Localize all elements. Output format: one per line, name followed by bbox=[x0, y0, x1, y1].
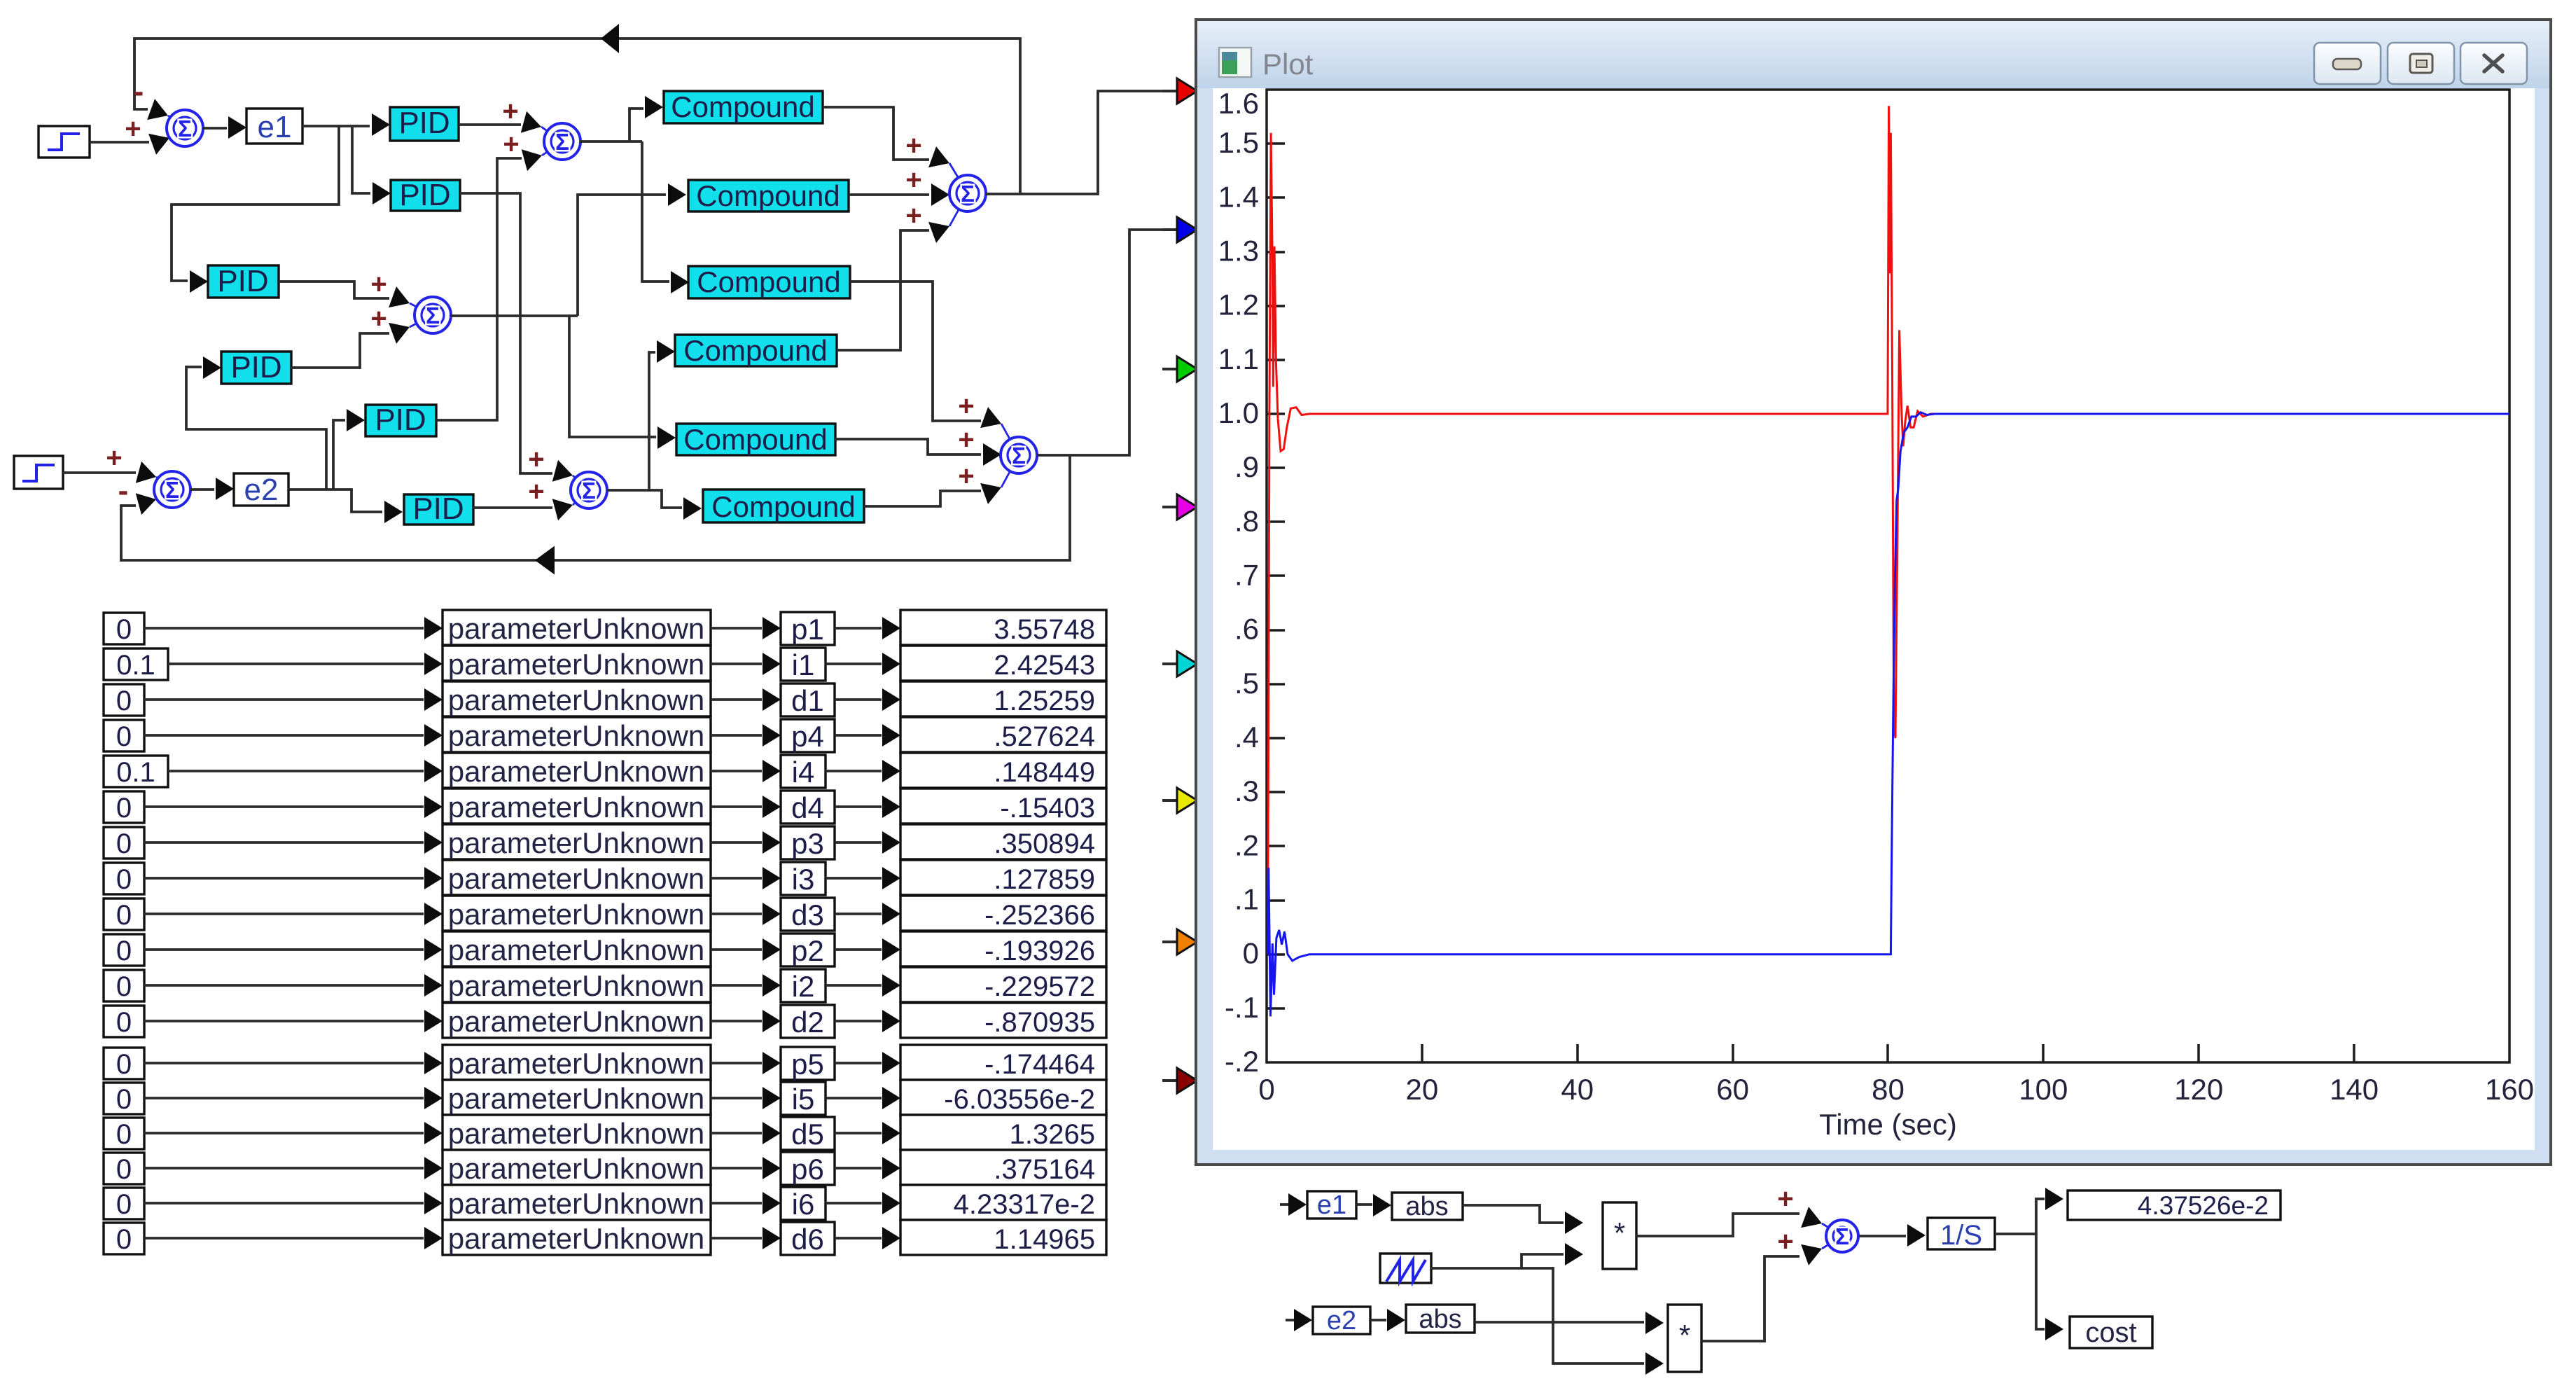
svg-text:parameterUnknown: parameterUnknown bbox=[448, 1082, 705, 1115]
svg-text:PID: PID bbox=[399, 178, 450, 212]
svg-text:d6: d6 bbox=[791, 1223, 824, 1256]
svg-text:1.0: 1.0 bbox=[1218, 396, 1259, 429]
parameter row p4 : input constant 0 -> parameterUnknown -> p4 -> value .527624 bbox=[104, 720, 144, 751]
svg-text:Σ: Σ bbox=[426, 303, 440, 328]
svg-text:.9: .9 bbox=[1234, 450, 1259, 483]
green plot input arrow bbox=[1162, 356, 1197, 382]
parameter row d6 : input constant 0 -> parameterUnknown -> d6 -> value 1.14965 bbox=[104, 1223, 144, 1254]
svg-text:PID: PID bbox=[230, 350, 281, 384]
sum junction S4 bbox=[156, 477, 172, 499]
svg-text:-: - bbox=[118, 473, 129, 508]
svg-text:80: 80 bbox=[1872, 1073, 1905, 1106]
svg-text:Compound: Compound bbox=[683, 423, 827, 456]
svg-text:+: + bbox=[1777, 1226, 1793, 1257]
svg-text:+: + bbox=[370, 269, 387, 300]
svg-text:-.229572: -.229572 bbox=[984, 971, 1095, 1002]
PID block PID5 bbox=[365, 405, 436, 436]
svg-text:100: 100 bbox=[2019, 1073, 2068, 1106]
wire step1 to sum junction S1 bbox=[90, 141, 149, 144]
svg-text:0: 0 bbox=[116, 721, 132, 752]
x axis tick marks and labels bbox=[1422, 1044, 2354, 1062]
svg-text:3.55748: 3.55748 bbox=[994, 614, 1095, 645]
svg-text:-.2: -.2 bbox=[1225, 1045, 1259, 1078]
maximize button bbox=[2388, 43, 2454, 84]
svg-text:+: + bbox=[528, 444, 544, 475]
parameter row p6 : input constant 0 -> parameterUnknown -> p6 -> value .375164 bbox=[104, 1153, 144, 1184]
svg-text:0.1: 0.1 bbox=[116, 757, 155, 788]
blue response curve bbox=[1268, 412, 2509, 1017]
svg-text:parameterUnknown: parameterUnknown bbox=[448, 862, 705, 895]
svg-text:2.42543: 2.42543 bbox=[994, 650, 1095, 681]
svg-text:1.2: 1.2 bbox=[1218, 289, 1259, 321]
svg-text:Σ: Σ bbox=[555, 129, 569, 155]
svg-text:0: 0 bbox=[116, 1154, 132, 1185]
multiplier block M1 bbox=[1603, 1202, 1636, 1269]
sum junction S1 bbox=[168, 116, 185, 138]
wire e1 to abs1 bbox=[1356, 1203, 1372, 1206]
svg-text:Σ: Σ bbox=[1835, 1223, 1849, 1249]
wire sawtooth to M1 and M2 bbox=[1431, 1254, 1564, 1268]
svg-text:0: 0 bbox=[1243, 937, 1259, 970]
svg-text:-.15403: -.15403 bbox=[1000, 793, 1095, 824]
sawtooth source block bbox=[1380, 1254, 1431, 1283]
parameter row p1 : input constant 0 -> parameterUnknown -> p1 -> value 3.55748 bbox=[104, 613, 144, 644]
Compound block C3 bbox=[688, 266, 850, 298]
wire Compound4 output up to sum SA third plus input bbox=[837, 230, 929, 350]
svg-text:+: + bbox=[370, 303, 387, 334]
svg-text:.127859: .127859 bbox=[994, 864, 1095, 895]
svg-text:parameterUnknown: parameterUnknown bbox=[448, 1222, 705, 1255]
Compound block C4 bbox=[675, 335, 837, 366]
svg-text:20: 20 bbox=[1406, 1073, 1439, 1106]
svg-text:parameterUnknown: parameterUnknown bbox=[448, 719, 705, 752]
svg-text:.4: .4 bbox=[1234, 721, 1259, 754]
minimize button bbox=[2314, 43, 2381, 84]
y axis tick marks and labels bbox=[1267, 144, 1285, 1008]
svg-text:+: + bbox=[528, 476, 544, 507]
svg-text:40: 40 bbox=[1561, 1073, 1594, 1106]
svg-text:-.252366: -.252366 bbox=[984, 900, 1095, 931]
svg-text:Σ: Σ bbox=[582, 478, 596, 504]
wire S6 to integrator 1/S bbox=[1859, 1235, 1906, 1237]
svg-text:.375164: .375164 bbox=[994, 1154, 1095, 1185]
svg-text:0: 0 bbox=[116, 1189, 132, 1220]
parameter row d5 : input constant 0 -> parameterUnknown -> d5 -> value 1.3265 bbox=[104, 1118, 144, 1149]
wire S3 output to Compound2 and Compound5 bbox=[450, 314, 578, 317]
svg-text:+: + bbox=[1777, 1184, 1793, 1214]
svg-text:Compound: Compound bbox=[711, 490, 855, 523]
svg-text:e1: e1 bbox=[1317, 1191, 1346, 1220]
svg-text:Compound: Compound bbox=[697, 265, 840, 298]
svg-text:0: 0 bbox=[116, 936, 132, 966]
value display 4.37526e-2 bbox=[2068, 1191, 2281, 1220]
svg-text:+: + bbox=[958, 391, 974, 422]
svg-text:i6: i6 bbox=[792, 1188, 815, 1221]
wire abs2 to M2 bbox=[1475, 1321, 1644, 1324]
svg-text:Σ: Σ bbox=[961, 181, 975, 207]
wire e1 output branching to PID1, PID2, PID3 bbox=[302, 125, 370, 127]
svg-text:parameterUnknown: parameterUnknown bbox=[448, 612, 705, 645]
wire S4 to e2 bbox=[190, 488, 214, 491]
svg-text:PID: PID bbox=[412, 492, 464, 526]
wire Compound1 output to sum SA plus input bbox=[823, 107, 929, 160]
Compound block C5 bbox=[676, 424, 835, 455]
svg-text:0: 0 bbox=[116, 793, 132, 824]
svg-text:abs: abs bbox=[1405, 1192, 1448, 1221]
svg-text:0: 0 bbox=[116, 1084, 132, 1115]
dark red plot input arrow bbox=[1162, 1068, 1197, 1093]
wire abs1 to multiplier M1 bbox=[1463, 1205, 1564, 1223]
svg-text:parameterUnknown: parameterUnknown bbox=[448, 1152, 705, 1185]
parameter row i3 : input constant 0 -> parameterUnknown -> i3 -> value .127859 bbox=[104, 863, 144, 894]
svg-text:160: 160 bbox=[2485, 1073, 2534, 1106]
svg-text:4.23317e-2: 4.23317e-2 bbox=[954, 1189, 1095, 1220]
step source block step2 bbox=[14, 456, 63, 489]
sum junction S5 bbox=[573, 476, 589, 505]
parameter row i2 : input constant 0 -> parameterUnknown -> i2 -> value -.229572 bbox=[104, 970, 144, 1001]
svg-text:parameterUnknown: parameterUnknown bbox=[448, 826, 705, 859]
wire PID3 to sum S3 plus input bbox=[279, 282, 389, 298]
svg-text:p5: p5 bbox=[791, 1048, 824, 1081]
top feedback wire from sum SA output into S1 (minus input) bbox=[134, 39, 1020, 194]
svg-text:0: 0 bbox=[116, 971, 132, 1002]
svg-text:parameterUnknown: parameterUnknown bbox=[448, 1047, 705, 1080]
svg-text:0: 0 bbox=[116, 686, 132, 716]
svg-text:PID: PID bbox=[217, 264, 268, 298]
svg-text:1.5: 1.5 bbox=[1218, 126, 1259, 159]
svg-text:d5: d5 bbox=[791, 1118, 824, 1151]
svg-text:0: 0 bbox=[116, 1119, 132, 1150]
svg-text:e2: e2 bbox=[244, 473, 279, 507]
wire Compound2 output to sum SA second plus input bbox=[849, 193, 929, 196]
node e1 bbox=[246, 109, 302, 144]
svg-text:abs: abs bbox=[1419, 1305, 1461, 1334]
svg-text:120: 120 bbox=[2174, 1073, 2223, 1106]
wire PID5 output up to sum S2 second plus input bbox=[436, 158, 522, 420]
svg-text:d4: d4 bbox=[791, 791, 824, 824]
svg-text:-.1: -.1 bbox=[1225, 991, 1259, 1024]
Compound block C6 bbox=[703, 490, 864, 522]
Compound block C2 bbox=[688, 180, 849, 211]
parameter row d2 : input constant 0 -> parameterUnknown -> d2 -> value -.870935 bbox=[104, 1006, 144, 1037]
wire SB output to blue plot input and bottom feedback bbox=[1037, 230, 1167, 455]
blue plot input arrow bbox=[1162, 217, 1197, 242]
svg-text:.5: .5 bbox=[1234, 667, 1259, 700]
red plot input arrow bbox=[1162, 78, 1197, 104]
svg-text:1.14965: 1.14965 bbox=[994, 1224, 1095, 1255]
Compound block C1 bbox=[664, 91, 823, 123]
svg-text:.148449: .148449 bbox=[994, 757, 1095, 788]
svg-text:60: 60 bbox=[1716, 1073, 1749, 1106]
svg-text:parameterUnknown: parameterUnknown bbox=[448, 969, 705, 1002]
parameter row d3 : input constant 0 -> parameterUnknown -> d3 -> value -.252366 bbox=[104, 898, 144, 930]
sum junction S3 bbox=[410, 303, 433, 327]
svg-text:i5: i5 bbox=[792, 1083, 815, 1116]
wire PID2 output down to sum S5 plus input bbox=[460, 193, 552, 473]
svg-text:+: + bbox=[905, 200, 921, 231]
svg-text:i4: i4 bbox=[792, 756, 815, 789]
svg-text:parameterUnknown: parameterUnknown bbox=[448, 934, 705, 966]
svg-text:d1: d1 bbox=[791, 684, 824, 717]
svg-text:d3: d3 bbox=[791, 898, 824, 931]
svg-text:p1: p1 bbox=[791, 613, 824, 646]
abs block abs1 bbox=[1392, 1193, 1463, 1220]
plot window icon bbox=[1219, 48, 1251, 77]
sum junction SB bbox=[1001, 424, 1019, 487]
parameter row d4 : input constant 0 -> parameterUnknown -> d4 -> value -.15403 bbox=[104, 791, 144, 823]
svg-text:1.6: 1.6 bbox=[1218, 87, 1259, 120]
parameter row i1 : input constant 0.1 -> parameterUnknown -> i1 -> value 2.42543 bbox=[104, 648, 168, 680]
multiplier block M2 bbox=[1668, 1305, 1701, 1372]
svg-text:+: + bbox=[502, 96, 518, 127]
svg-text:-.193926: -.193926 bbox=[984, 936, 1095, 966]
parameter row p5 : input constant 0 -> parameterUnknown -> p5 -> value -.174464 bbox=[104, 1048, 144, 1079]
svg-text:0: 0 bbox=[116, 828, 132, 859]
wire M1 output to sum S6 plus input bbox=[1636, 1214, 1799, 1236]
node e2 bbox=[234, 473, 288, 506]
wire Compound3 output down to sum SB plus input bbox=[850, 282, 981, 421]
svg-text:1/S: 1/S bbox=[1940, 1220, 1982, 1251]
svg-text:4.37526e-2: 4.37526e-2 bbox=[2138, 1191, 2269, 1220]
svg-text:p4: p4 bbox=[791, 720, 824, 753]
svg-text:p3: p3 bbox=[791, 827, 824, 860]
svg-text:.2: .2 bbox=[1234, 828, 1259, 861]
svg-text:-.174464: -.174464 bbox=[984, 1049, 1095, 1080]
wire step2 to sum junction S4 plus input bbox=[63, 471, 136, 474]
dangling input arrow into e1 monitor bbox=[1280, 1203, 1288, 1206]
svg-text:.3: .3 bbox=[1234, 775, 1259, 807]
svg-text:-: - bbox=[134, 74, 144, 109]
svg-text:0: 0 bbox=[116, 1007, 132, 1038]
svg-text:Σ: Σ bbox=[1012, 443, 1026, 469]
parameter row i6 : input constant 0 -> parameterUnknown -> i6 -> value 4.23317e-2 bbox=[104, 1188, 144, 1219]
svg-text:Compound: Compound bbox=[671, 90, 814, 123]
svg-text:.527624: .527624 bbox=[994, 721, 1095, 752]
svg-text:140: 140 bbox=[2330, 1073, 2379, 1106]
yellow plot input arrow bbox=[1162, 788, 1197, 813]
parameter row p2 : input constant 0 -> parameterUnknown -> p2 -> value -.193926 bbox=[104, 934, 144, 966]
svg-text:+: + bbox=[125, 113, 141, 144]
PID block PID3 bbox=[208, 265, 279, 298]
step source block step1 bbox=[39, 126, 90, 158]
svg-text:parameterUnknown: parameterUnknown bbox=[448, 648, 705, 681]
wire M2 output to sum S6 second plus input bbox=[1701, 1256, 1799, 1341]
svg-text:cost: cost bbox=[2085, 1317, 2136, 1348]
svg-text:0: 0 bbox=[116, 864, 132, 895]
svg-text:*: * bbox=[1679, 1319, 1690, 1352]
wire Compound6 output to sum SB third plus input bbox=[864, 491, 981, 506]
integrator block 1/S bbox=[1928, 1218, 1995, 1249]
svg-text:0: 0 bbox=[116, 1049, 132, 1080]
close button bbox=[2460, 43, 2527, 84]
svg-text:0: 0 bbox=[1258, 1073, 1274, 1106]
wire PID6 output to sum S5 second plus input bbox=[473, 506, 552, 509]
wire S1 to e1 bbox=[203, 127, 227, 130]
cyan plot input arrow bbox=[1162, 651, 1197, 676]
svg-text:i3: i3 bbox=[792, 863, 815, 896]
dangling input arrow into e2 monitor bbox=[1286, 1319, 1294, 1321]
svg-text:*: * bbox=[1614, 1216, 1625, 1249]
svg-text:+: + bbox=[958, 461, 974, 492]
svg-text:parameterUnknown: parameterUnknown bbox=[448, 1117, 705, 1150]
svg-text:Time (sec): Time (sec) bbox=[1819, 1108, 1957, 1141]
orange plot input arrow bbox=[1162, 929, 1197, 955]
svg-text:Plot: Plot bbox=[1262, 48, 1314, 81]
sum junction SA bbox=[949, 163, 968, 226]
svg-text:parameterUnknown: parameterUnknown bbox=[448, 898, 705, 931]
svg-text:0: 0 bbox=[116, 1224, 132, 1255]
svg-text:parameterUnknown: parameterUnknown bbox=[448, 755, 705, 788]
svg-text:+: + bbox=[503, 129, 519, 160]
svg-text:+: + bbox=[905, 165, 921, 195]
svg-text:e1: e1 bbox=[258, 110, 292, 144]
svg-text:1.3: 1.3 bbox=[1218, 235, 1259, 268]
wire e2 to abs2 bbox=[1370, 1319, 1386, 1321]
wire S2 output to Compound1 and Compound3 bbox=[580, 140, 642, 143]
svg-text:parameterUnknown: parameterUnknown bbox=[448, 683, 705, 716]
svg-text:0: 0 bbox=[116, 900, 132, 931]
PID block PID4 bbox=[221, 352, 291, 384]
svg-text:1.1: 1.1 bbox=[1218, 342, 1259, 375]
plot axes frame bbox=[1267, 90, 2509, 1062]
sum junction S6 bbox=[1822, 1223, 1842, 1249]
svg-text:1.4: 1.4 bbox=[1218, 180, 1259, 213]
svg-text:Compound: Compound bbox=[696, 179, 840, 212]
svg-text:p2: p2 bbox=[791, 934, 824, 967]
svg-text:.7: .7 bbox=[1234, 559, 1259, 592]
svg-text:.8: .8 bbox=[1234, 504, 1259, 537]
wire S5 output to Compound4 and Compound6 bbox=[607, 352, 655, 490]
parameter row i5 : input constant 0 -> parameterUnknown -> i5 -> value -6.03556e-2 bbox=[104, 1083, 144, 1114]
svg-text:0.1: 0.1 bbox=[116, 650, 155, 681]
node e2 (cost diagram) bbox=[1313, 1307, 1370, 1334]
wire e2 output branching to PID4, PID5, PID6 bbox=[288, 490, 382, 512]
red response curve bbox=[1268, 106, 2509, 955]
wire 1/S output to value display and cost bbox=[1995, 1199, 2045, 1234]
PID block PID2 bbox=[391, 180, 460, 211]
parameter row i4 : input constant 0.1 -> parameterUnknown -> i4 -> value .148449 bbox=[104, 756, 168, 787]
svg-text:Σ: Σ bbox=[165, 477, 179, 503]
parameter row d1 : input constant 0 -> parameterUnknown -> d1 -> value 1.25259 bbox=[104, 684, 144, 716]
svg-text:.6: .6 bbox=[1234, 613, 1259, 646]
PID block PID1 bbox=[390, 107, 459, 141]
svg-text:Σ: Σ bbox=[178, 116, 192, 141]
svg-text:p6: p6 bbox=[791, 1153, 824, 1186]
svg-text:parameterUnknown: parameterUnknown bbox=[448, 791, 705, 824]
wire SA output to red plot input and top feedback bbox=[986, 91, 1167, 194]
svg-text:.1: .1 bbox=[1234, 883, 1259, 916]
svg-text:-.870935: -.870935 bbox=[984, 1007, 1095, 1038]
svg-text:+: + bbox=[958, 424, 974, 455]
svg-text:1.3265: 1.3265 bbox=[1010, 1119, 1095, 1150]
svg-text:1.25259: 1.25259 bbox=[994, 686, 1095, 716]
bottom feedback wire from sum SB output into S4 (minus input) bbox=[121, 455, 1070, 560]
sum junction S2 bbox=[541, 127, 562, 155]
svg-text:.350894: .350894 bbox=[994, 828, 1095, 859]
svg-text:i2: i2 bbox=[792, 970, 815, 1003]
node cost bbox=[2070, 1317, 2152, 1348]
PID block PID6 bbox=[404, 494, 473, 525]
node e1 (cost diagram) bbox=[1307, 1191, 1356, 1219]
svg-text:parameterUnknown: parameterUnknown bbox=[448, 1187, 705, 1220]
svg-text:d2: d2 bbox=[791, 1006, 824, 1039]
svg-text:e2: e2 bbox=[1327, 1306, 1356, 1335]
svg-text:PID: PID bbox=[375, 403, 426, 437]
svg-text:i1: i1 bbox=[792, 648, 815, 681]
magenta plot input arrow bbox=[1162, 494, 1197, 520]
svg-text:+: + bbox=[905, 130, 921, 161]
abs block abs2 bbox=[1406, 1305, 1475, 1333]
svg-text:parameterUnknown: parameterUnknown bbox=[448, 1005, 705, 1038]
wire Compound5 output to sum SB second plus input bbox=[835, 439, 981, 454]
svg-text:+: + bbox=[106, 443, 122, 473]
svg-text:-6.03556e-2: -6.03556e-2 bbox=[944, 1084, 1095, 1115]
plot window frame bbox=[1196, 20, 2551, 1165]
svg-text:PID: PID bbox=[398, 106, 450, 140]
parameter row p3 : input constant 0 -> parameterUnknown -> p3 -> value .350894 bbox=[104, 827, 144, 859]
wire PID4 to sum S3 second plus input bbox=[291, 333, 389, 368]
wire PID1 to sum S2 plus input bbox=[459, 123, 521, 126]
svg-text:Compound: Compound bbox=[683, 334, 827, 367]
svg-text:0: 0 bbox=[116, 614, 132, 645]
